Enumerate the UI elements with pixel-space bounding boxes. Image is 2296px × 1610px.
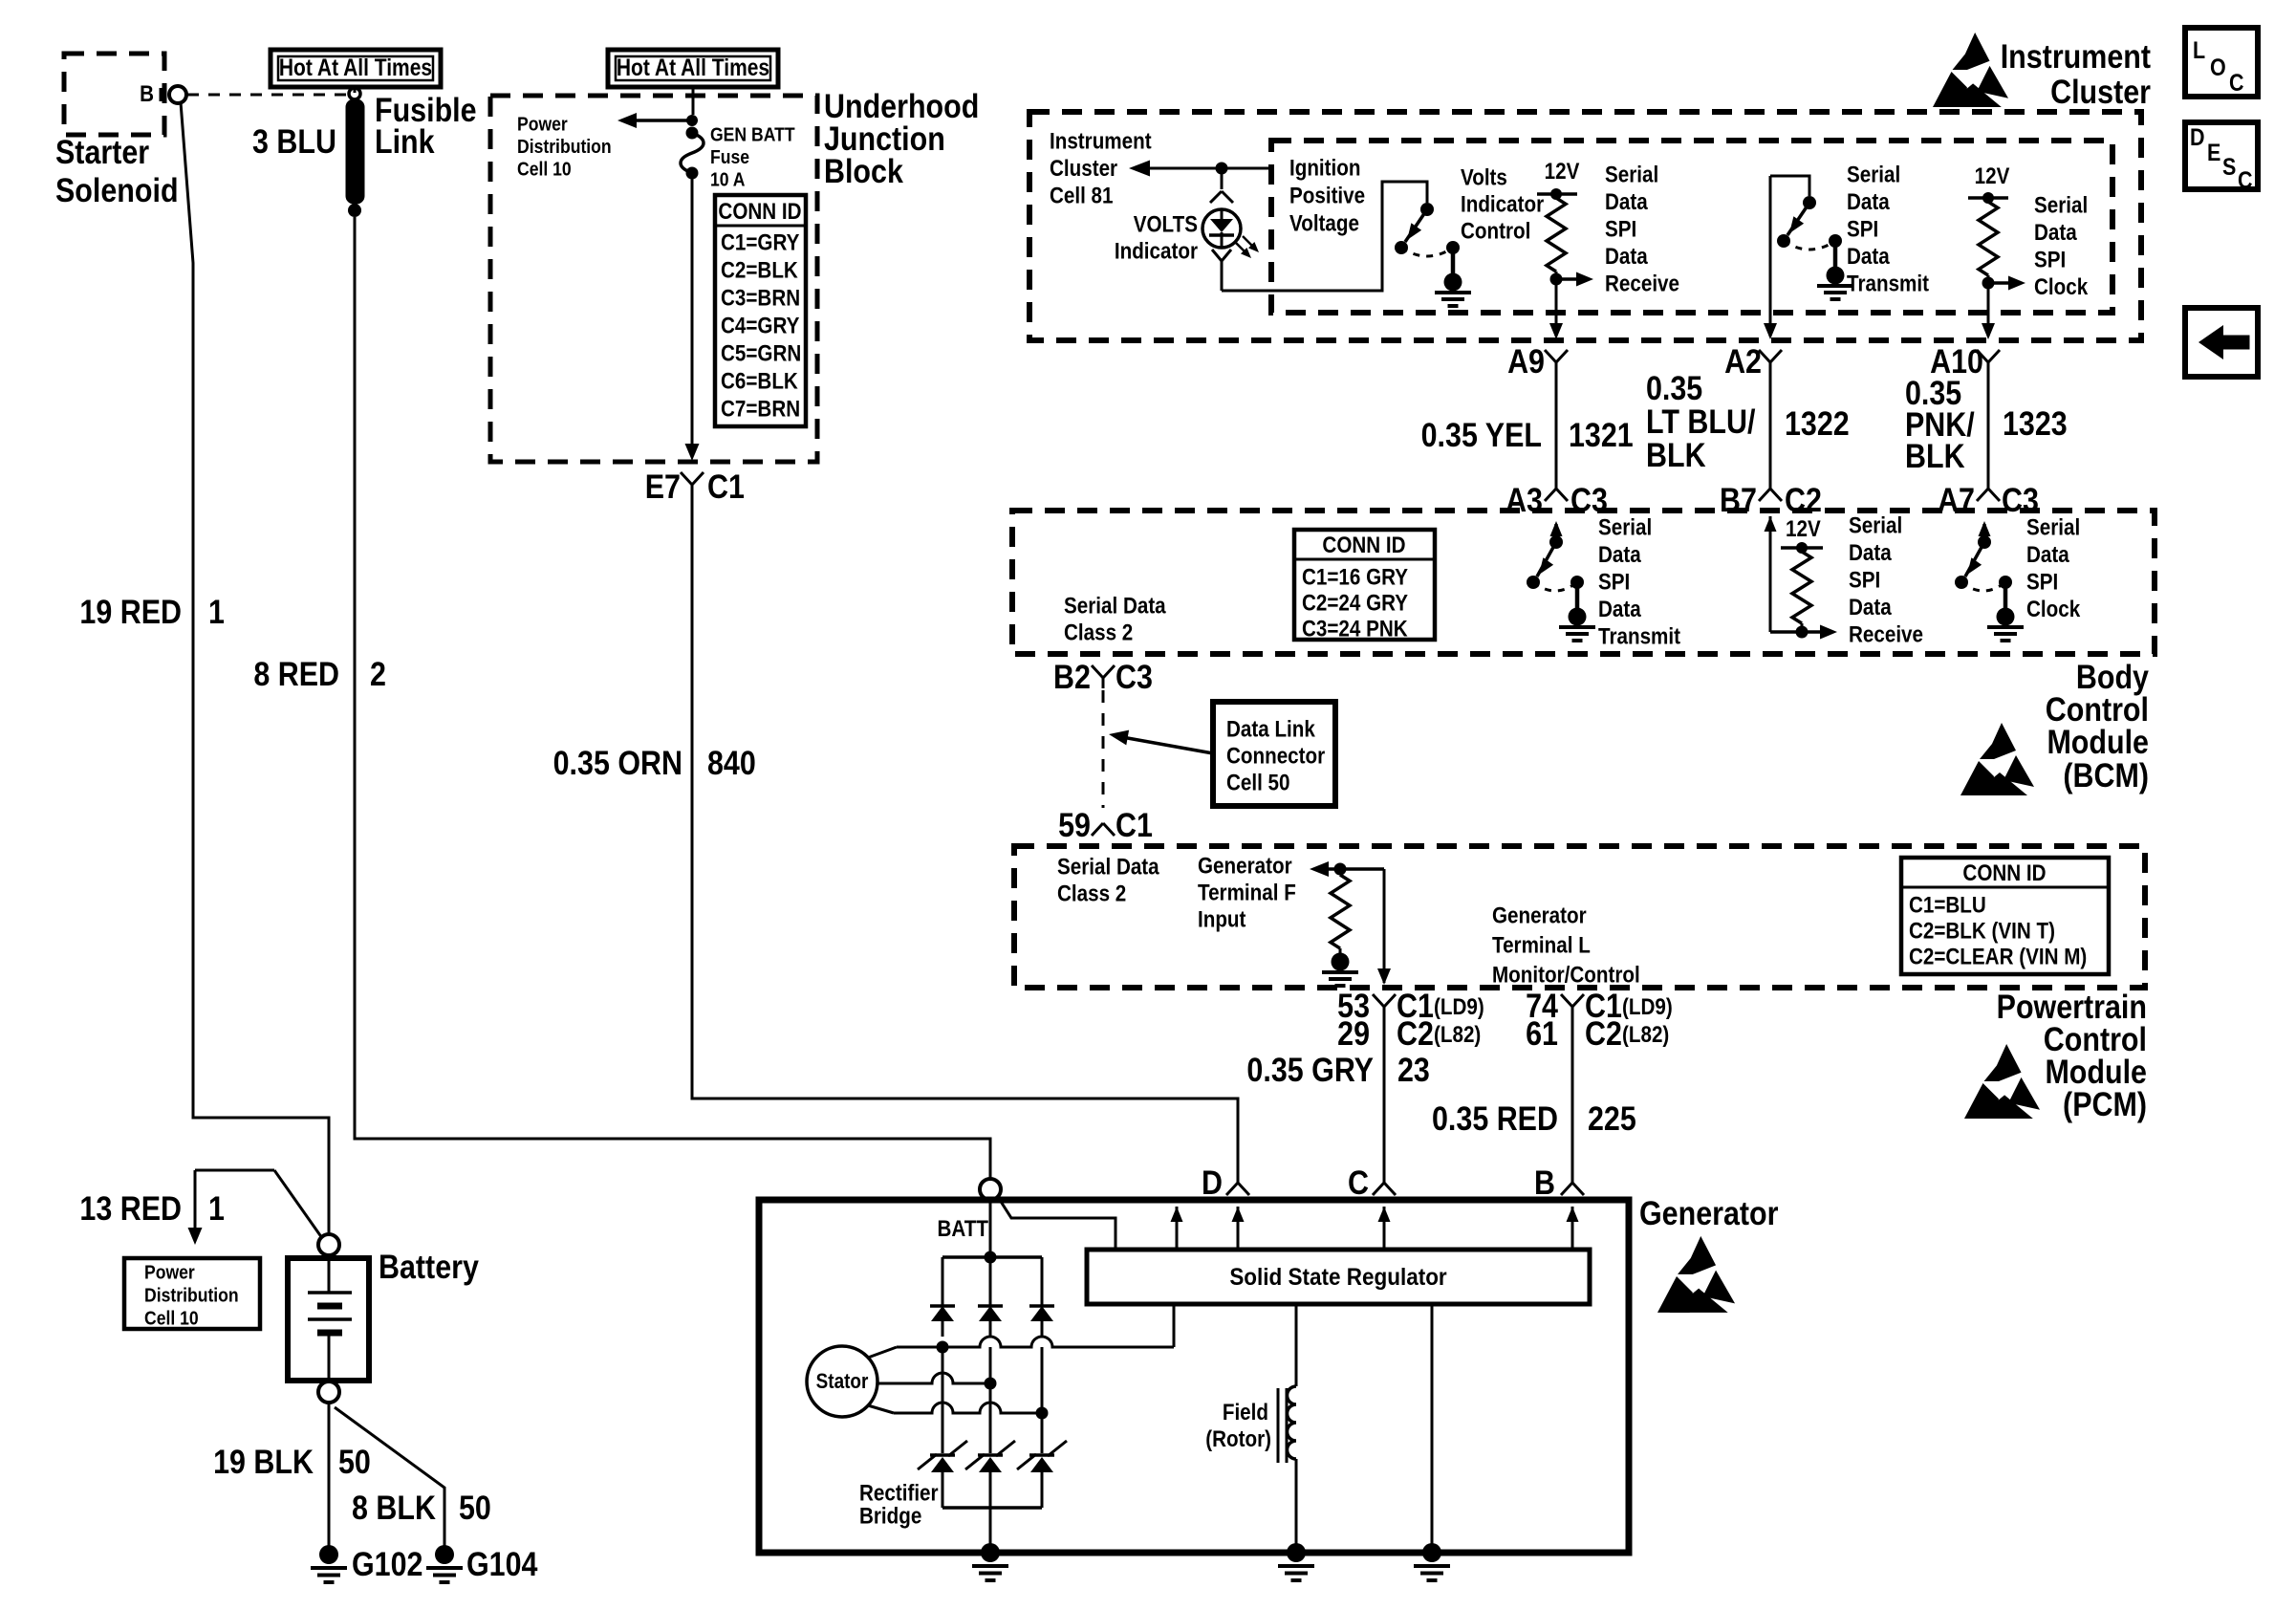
svg-text:Module: Module — [2047, 723, 2149, 760]
svg-text:1323: 1323 — [2003, 404, 2068, 442]
svg-text:0.35 YEL: 0.35 YEL — [1421, 416, 1542, 453]
svg-text:12V: 12V — [1786, 516, 1821, 542]
svg-text:Control: Control — [1461, 218, 1530, 244]
svg-text:29: 29 — [1337, 1014, 1370, 1052]
svg-text:CONN ID: CONN ID — [1322, 533, 1405, 558]
svg-text:Transmit: Transmit — [1847, 271, 1930, 296]
svg-text:Serial: Serial — [2026, 514, 2080, 540]
svg-text:0.35: 0.35 — [1646, 369, 1702, 406]
svg-text:Data: Data — [1605, 243, 1648, 269]
svg-text:Link: Link — [375, 122, 435, 160]
svg-text:Serial Data: Serial Data — [1057, 854, 1159, 880]
svg-text:19 RED: 19 RED — [79, 593, 182, 630]
svg-text:C3: C3 — [1116, 658, 1153, 695]
svg-text:Hot At All Times: Hot At All Times — [279, 54, 432, 80]
svg-text:S: S — [2222, 153, 2236, 180]
svg-text:C3=24 PNK: C3=24 PNK — [1302, 616, 1408, 642]
svg-text:Serial: Serial — [1847, 162, 1900, 187]
svg-text:Solid State Regulator: Solid State Regulator — [1229, 1264, 1446, 1291]
svg-text:VOLTS: VOLTS — [1134, 211, 1198, 237]
svg-text:1: 1 — [208, 1189, 225, 1227]
svg-text:Serial: Serial — [1849, 512, 1902, 538]
svg-text:C2: C2 — [1585, 1014, 1622, 1052]
svg-text:GEN BATT: GEN BATT — [710, 123, 795, 144]
svg-text:Generator: Generator — [1639, 1194, 1779, 1231]
svg-text:Fuse: Fuse — [710, 146, 749, 167]
svg-text:SPI: SPI — [1847, 216, 1878, 242]
svg-text:Data: Data — [1849, 594, 1892, 620]
svg-text:Cell 50: Cell 50 — [1226, 770, 1290, 795]
svg-text:B2: B2 — [1053, 658, 1091, 695]
svg-text:SPI: SPI — [1849, 567, 1880, 593]
svg-text:O: O — [2210, 54, 2226, 80]
svg-text:Monitor/Control: Monitor/Control — [1492, 962, 1640, 988]
svg-text:Distribution: Distribution — [144, 1284, 239, 1305]
svg-text:C1: C1 — [707, 468, 745, 505]
svg-text:Voltage: Voltage — [1289, 210, 1359, 236]
svg-text:Solenoid: Solenoid — [55, 171, 179, 208]
svg-text:C5=GRN: C5=GRN — [721, 340, 801, 366]
svg-text:C3=BRN: C3=BRN — [721, 285, 800, 311]
svg-text:(LD9): (LD9) — [1622, 994, 1673, 1020]
svg-text:1: 1 — [208, 593, 225, 630]
svg-text:8 BLK: 8 BLK — [352, 1489, 436, 1526]
svg-text:C6=BLK: C6=BLK — [721, 368, 798, 394]
svg-text:Indicator: Indicator — [1115, 238, 1198, 264]
svg-text:CONN ID: CONN ID — [718, 199, 801, 225]
svg-text:Receive: Receive — [1605, 271, 1679, 296]
svg-text:23: 23 — [1397, 1051, 1430, 1088]
svg-text:Instrument: Instrument — [1050, 128, 1152, 154]
svg-text:Instrument: Instrument — [2001, 37, 2151, 75]
svg-text:G104: G104 — [466, 1545, 538, 1582]
svg-text:1321: 1321 — [1569, 416, 1634, 453]
svg-text:(PCM): (PCM) — [2063, 1085, 2147, 1122]
svg-text:Stator: Stator — [816, 1370, 869, 1394]
svg-text:Class 2: Class 2 — [1057, 881, 1126, 906]
svg-text:Data: Data — [2026, 541, 2069, 567]
svg-text:SPI: SPI — [1605, 216, 1636, 242]
svg-text:Cell 81: Cell 81 — [1050, 183, 1114, 208]
svg-text:Distribution: Distribution — [517, 136, 612, 157]
svg-text:59: 59 — [1058, 806, 1091, 843]
svg-text:(L82): (L82) — [1622, 1022, 1669, 1048]
svg-text:Serial Data: Serial Data — [1064, 593, 1166, 619]
svg-text:840: 840 — [707, 744, 756, 781]
svg-text:Power: Power — [144, 1261, 195, 1282]
svg-text:SPI: SPI — [2034, 247, 2066, 272]
svg-text:50: 50 — [338, 1443, 371, 1480]
svg-text:BATT: BATT — [938, 1216, 989, 1242]
svg-text:Serial: Serial — [1598, 514, 1652, 540]
svg-text:Connector: Connector — [1226, 743, 1325, 769]
svg-text:13 RED: 13 RED — [79, 1189, 182, 1227]
svg-text:1322: 1322 — [1785, 404, 1850, 442]
svg-text:Positive: Positive — [1289, 183, 1365, 208]
svg-text:C: C — [2238, 166, 2253, 193]
svg-text:A9: A9 — [1507, 342, 1545, 380]
svg-text:B: B — [140, 81, 154, 107]
svg-text:C1=GRY: C1=GRY — [721, 229, 799, 255]
svg-text:0.35 ORN: 0.35 ORN — [553, 744, 682, 781]
svg-text:C: C — [2229, 69, 2244, 96]
svg-text:C2=BLK: C2=BLK — [721, 257, 798, 283]
svg-text:Data: Data — [1605, 188, 1648, 214]
svg-text:61: 61 — [1526, 1014, 1558, 1052]
svg-text:225: 225 — [1588, 1099, 1636, 1137]
svg-text:C1: C1 — [1116, 806, 1153, 843]
svg-text:50: 50 — [459, 1489, 491, 1526]
svg-text:Indicator: Indicator — [1461, 191, 1544, 217]
svg-text:Starter: Starter — [55, 133, 149, 170]
svg-text:SPI: SPI — [2026, 569, 2058, 595]
svg-text:C1=BLU: C1=BLU — [1909, 892, 1986, 918]
svg-text:Serial: Serial — [1605, 162, 1658, 187]
svg-text:Hot At All Times: Hot At All Times — [617, 54, 769, 80]
svg-text:C: C — [1348, 1164, 1369, 1201]
svg-text:Data: Data — [2034, 219, 2077, 245]
svg-text:Transmit: Transmit — [1598, 623, 1681, 649]
svg-text:SPI: SPI — [1598, 569, 1630, 595]
svg-text:CONN ID: CONN ID — [1962, 860, 2046, 886]
svg-text:Field: Field — [1223, 1400, 1268, 1425]
svg-text:C1=16 GRY: C1=16 GRY — [1302, 564, 1408, 590]
svg-text:Cluster: Cluster — [1050, 155, 1117, 181]
svg-text:Data: Data — [1847, 243, 1890, 269]
svg-text:C2: C2 — [1397, 1014, 1434, 1052]
svg-text:E: E — [2207, 139, 2220, 165]
svg-text:Data: Data — [1849, 539, 1892, 565]
svg-text:E7: E7 — [645, 468, 681, 505]
svg-text:Data: Data — [1598, 596, 1641, 621]
svg-text:(LD9): (LD9) — [1434, 994, 1484, 1020]
svg-text:Power: Power — [517, 113, 568, 134]
svg-text:C2=24 GRY: C2=24 GRY — [1302, 590, 1408, 616]
svg-text:Data Link: Data Link — [1226, 716, 1315, 742]
svg-text:19 BLK: 19 BLK — [213, 1443, 314, 1480]
svg-text:(BCM): (BCM) — [2063, 756, 2149, 794]
svg-text:Terminal L: Terminal L — [1492, 932, 1591, 958]
svg-text:C2=CLEAR (VIN M): C2=CLEAR (VIN M) — [1909, 944, 2087, 969]
svg-text:Rectifier: Rectifier — [859, 1480, 939, 1506]
svg-text:10 A: 10 A — [710, 168, 746, 189]
svg-text:D: D — [2190, 123, 2205, 150]
svg-text:Battery: Battery — [379, 1248, 480, 1285]
svg-text:Ignition: Ignition — [1289, 155, 1360, 181]
svg-text:G102: G102 — [352, 1545, 422, 1582]
svg-text:2: 2 — [370, 655, 386, 692]
svg-text:Cell 10: Cell 10 — [517, 158, 572, 179]
svg-text:Data: Data — [1847, 188, 1890, 214]
svg-text:Terminal F: Terminal F — [1198, 880, 1296, 905]
svg-text:BLK: BLK — [1646, 436, 1706, 473]
svg-text:L: L — [2193, 36, 2205, 63]
svg-text:(L82): (L82) — [1434, 1022, 1481, 1048]
svg-text:C2=BLK (VIN T): C2=BLK (VIN T) — [1909, 918, 2055, 944]
svg-text:Data: Data — [1598, 541, 1641, 567]
svg-text:LT BLU/: LT BLU/ — [1646, 402, 1755, 440]
svg-text:Serial: Serial — [2034, 192, 2088, 218]
svg-text:Receive: Receive — [1849, 621, 1923, 647]
svg-text:C4=GRY: C4=GRY — [721, 313, 799, 338]
svg-text:8 RED: 8 RED — [253, 655, 339, 692]
svg-text:Bridge: Bridge — [859, 1503, 921, 1529]
svg-text:Class 2: Class 2 — [1064, 620, 1133, 645]
svg-text:Cluster: Cluster — [2050, 73, 2151, 110]
svg-text:Input: Input — [1198, 906, 1246, 932]
svg-text:Volts: Volts — [1461, 164, 1507, 190]
svg-text:12V: 12V — [1545, 159, 1580, 185]
svg-text:A2: A2 — [1724, 342, 1762, 380]
svg-text:Block: Block — [824, 152, 904, 189]
svg-text:3 BLU: 3 BLU — [252, 122, 336, 160]
svg-text:0.35 RED: 0.35 RED — [1432, 1099, 1558, 1137]
svg-text:(Rotor): (Rotor) — [1205, 1426, 1271, 1452]
svg-text:D: D — [1202, 1164, 1223, 1201]
svg-text:Cell 10: Cell 10 — [144, 1307, 199, 1328]
svg-text:Generator: Generator — [1492, 903, 1587, 928]
svg-text:Generator: Generator — [1198, 853, 1292, 879]
svg-text:C7=BRN: C7=BRN — [721, 396, 800, 422]
svg-text:BLK: BLK — [1905, 437, 1965, 474]
svg-text:Clock: Clock — [2026, 596, 2081, 621]
svg-text:0.35 GRY: 0.35 GRY — [1246, 1051, 1374, 1088]
svg-text:12V: 12V — [1975, 163, 2010, 189]
svg-text:B: B — [1534, 1164, 1555, 1201]
svg-text:Clock: Clock — [2034, 273, 2089, 299]
